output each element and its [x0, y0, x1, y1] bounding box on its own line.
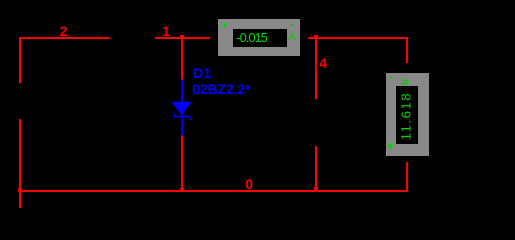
- wire: bottom rail (node 0): [19, 190, 408, 192]
- voltmeter - terminal mark: [389, 77, 393, 78]
- junction: diode branch on bottom rail: [180, 188, 184, 192]
- node 0 label: [245, 179, 253, 189]
- wire: voltmeter bottom pin wire: [406, 162, 408, 193]
- wire: node 1 down to diode D1 anode: [181, 37, 183, 80]
- diode D1 value label 02BZ2.2*: [192, 84, 250, 94]
- diode D1 (zener) symbol: [165, 75, 200, 140]
- voltmeter reading 11.618 (rotated): [400, 92, 413, 140]
- junction: node 4 branch on bottom rail: [314, 187, 318, 191]
- junction: node 1 on top rail: [180, 35, 184, 39]
- ammeter + terminal mark: [222, 25, 226, 26]
- junction: bottom-left node 0 / ground: [18, 188, 22, 192]
- diode D1 reference designator label: [193, 68, 211, 78]
- wire: node 4 vertical lower segment (invisible resistor to node 0): [315, 146, 317, 192]
- node 2 label: [60, 26, 68, 36]
- wire: left vertical upper segment (node 2 into invisible source): [19, 37, 21, 83]
- wire: voltmeter top pin wire: [406, 37, 408, 63]
- ammeter display window: [233, 29, 287, 47]
- wire: top rail segment (node 1, right of invisible part to ammeter): [155, 37, 210, 39]
- wire: diode D1 cathode down to node 0: [181, 135, 183, 192]
- wire: top rail segment (ammeter right pin to node 4 corner): [308, 37, 408, 39]
- ammeter unit label A: [289, 33, 296, 41]
- voltmeter + terminal mark: [387, 143, 394, 151]
- wire: ground stub at bottom-left: [19, 192, 21, 208]
- ammeter - terminal mark: [291, 24, 294, 25]
- voltmeter (VIEWPOINT) body: [386, 73, 429, 156]
- node 1 label: [162, 26, 170, 36]
- ammeter reading -0.015: [236, 33, 267, 42]
- wire: left vertical lower segment (invisible source to node 0): [19, 119, 21, 192]
- voltmeter display window: [396, 86, 418, 144]
- junction: node 4 on top rail: [314, 35, 318, 39]
- voltmeter unit label V (rotated): [403, 78, 411, 85]
- wire: top rail segment (node 2, left of invisible part): [19, 37, 110, 39]
- ammeter (IPROBE) body: [218, 19, 300, 56]
- node 4 label: [319, 58, 327, 68]
- wire: node 4 vertical upper segment (into invisible resistor): [315, 37, 317, 99]
